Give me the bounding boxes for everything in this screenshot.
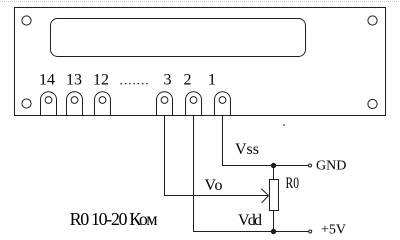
- pin 14: [41, 92, 57, 115]
- svg-text:Vo: Vo: [205, 177, 223, 194]
- mounting hole bottom-right: [368, 99, 377, 108]
- pin 12: [95, 92, 111, 115]
- svg-text:R0: R0: [286, 175, 300, 192]
- pin 13: [67, 92, 83, 115]
- pin 1: [215, 92, 231, 115]
- svg-text:1: 1: [208, 72, 216, 89]
- pin 3: [157, 92, 173, 115]
- wire pin2 to +5V (Vdd net): [194, 115, 309, 232]
- svg-text:3: 3: [164, 72, 172, 89]
- wire pin1 to Vss node and GND: [223, 115, 309, 166]
- junction node Vdd / R0 bottom: [271, 229, 275, 233]
- svg-text:2: 2: [184, 72, 192, 89]
- wire R0 bottom to Vdd node: [273, 211, 275, 232]
- +5V terminal: [309, 230, 312, 233]
- pin 2: [186, 92, 202, 115]
- mounting hole top-right: [368, 16, 377, 25]
- svg-text:Vdd: Vdd: [238, 212, 262, 229]
- junction node Vss / R0 top: [271, 163, 275, 167]
- LCD display window: [51, 19, 306, 57]
- LCD module outline: [15, 8, 386, 116]
- svg-text:GND: GND: [316, 159, 346, 174]
- svg-text:13: 13: [66, 72, 82, 89]
- svg-text:12: 12: [93, 72, 109, 89]
- svg-text:R0 10-20 Ком: R0 10-20 Ком: [70, 209, 158, 229]
- mounting hole bottom-left: [22, 99, 31, 108]
- svg-text:Vss: Vss: [235, 141, 259, 158]
- ellipsis for pins 11..4: [120, 83, 147, 84]
- mounting hole top-left: [22, 16, 31, 25]
- GND terminal: [309, 164, 312, 167]
- wire pin3 Vo to wiper: [165, 115, 269, 196]
- wiper arrow into R0: [261, 189, 268, 203]
- svg-text:+5V: +5V: [321, 223, 346, 238]
- svg-text:14: 14: [39, 72, 55, 89]
- resistor R0 (potentiometer body): [270, 180, 279, 211]
- wire node to R0 top: [273, 166, 275, 180]
